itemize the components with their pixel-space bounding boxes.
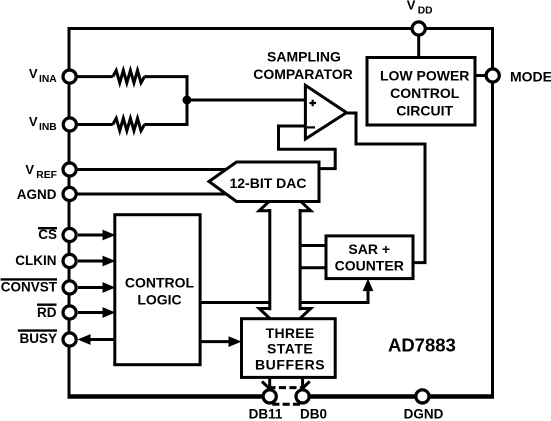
svg-text:AGND: AGND — [17, 187, 57, 202]
overline CS — [38, 227, 57, 229]
bus arrowhead top right barb — [299, 201, 311, 211]
white gap in bottom border between DB pins — [271, 392, 302, 401]
arrowhead BUSY (points left) — [78, 334, 91, 345]
svg-text:SAR +: SAR + — [348, 241, 390, 257]
svg-text:SAMPLING: SAMPLING — [267, 49, 341, 65]
arrowhead CLKIN — [103, 256, 116, 267]
pin CONVST — [63, 281, 76, 294]
lead buffers to DB11 pin — [268, 377, 271, 390]
wire bus to SAR stub 1 — [300, 244, 327, 247]
comparator U5 triangle — [305, 85, 346, 139]
svg-text:BUSY: BUSY — [19, 331, 57, 346]
wire VINB to resistor — [77, 123, 113, 126]
svg-text:RD: RD — [37, 305, 57, 320]
wire VDD pin to low power box — [417, 36, 420, 58]
arrowhead CS — [103, 230, 116, 241]
svg-text:CONTROL: CONTROL — [125, 274, 195, 290]
wire CS arrow line — [78, 234, 105, 237]
svg-text:CONVST: CONVST — [1, 279, 58, 294]
pin MODE — [486, 69, 499, 82]
svg-text:DB11: DB11 — [249, 407, 283, 421]
arrowhead CONVST — [103, 282, 116, 293]
svg-text:COUNTER: COUNTER — [335, 258, 404, 274]
dashed bus bottom between DB11 and DB0 — [272, 403, 302, 406]
chip outline border — [69, 29, 493, 397]
wire CONVST arrow line — [78, 286, 105, 289]
block low power control circuit U1 — [367, 58, 475, 126]
wire resistor R2 to node A — [144, 100, 187, 125]
barb on DB0 lead — [303, 381, 310, 388]
overline CONVST — [1, 278, 57, 280]
overline BUSY — [18, 329, 57, 331]
resistor R1 — [113, 70, 145, 82]
pin VINA — [63, 70, 76, 83]
pin CS — [63, 228, 76, 241]
svg-text:CLKIN: CLKIN — [15, 253, 56, 268]
lead buffers to DB0 pin — [301, 377, 304, 390]
svg-text:THREE: THREE — [266, 325, 315, 341]
wire low power box to MODE pin — [475, 74, 485, 77]
wire bus right to SAR bottom arrow — [300, 289, 368, 303]
pin VDD — [412, 22, 425, 35]
svg-text:LOW POWER: LOW POWER — [380, 68, 469, 84]
pin CLKIN — [63, 254, 76, 267]
wire VINA to resistor and down to node — [77, 75, 113, 78]
block SAR + counter U3 — [326, 236, 413, 279]
svg-text:DGND: DGND — [404, 407, 444, 421]
pin RD — [63, 306, 76, 319]
wire RD arrow line — [78, 311, 105, 314]
bus arrowhead bottom left barb — [259, 309, 271, 319]
wire resistor R1 to node A — [144, 77, 187, 100]
wire node A to comparator + input — [187, 99, 305, 102]
wire control logic to bus left — [200, 301, 270, 304]
pin DB11 — [263, 390, 276, 403]
wire comparator output to SAR right side — [347, 113, 426, 263]
overline RD — [37, 304, 57, 306]
wire comparator - input feedback from DAC — [279, 126, 336, 169]
block control logic U2 — [115, 215, 200, 365]
wire VREF to DAC — [77, 168, 226, 171]
wire AGND to DAC — [77, 193, 228, 196]
arrowhead RD — [103, 307, 116, 318]
barb on DB11 lead — [262, 381, 269, 388]
wire bus to SAR stub 2 — [300, 266, 327, 269]
wire BUSY arrow line — [89, 338, 115, 341]
bus right line — [299, 209, 302, 310]
bus arrowhead top left barb — [259, 201, 271, 211]
comparator minus sign — [307, 126, 315, 128]
pin DB0 — [296, 390, 309, 403]
svg-text:COMPARATOR: COMPARATOR — [253, 66, 353, 82]
svg-text:LOGIC: LOGIC — [137, 292, 181, 308]
node A junction dot — [183, 96, 192, 105]
comparator plus sign — [309, 100, 316, 107]
pin VINB — [63, 118, 76, 131]
svg-text:AD7883: AD7883 — [388, 335, 456, 356]
wire control logic to buffers — [200, 340, 231, 343]
pin DGND — [416, 390, 429, 403]
svg-text:DB0: DB0 — [300, 407, 327, 421]
block three state buffers U4 — [242, 319, 336, 378]
svg-text:MODE: MODE — [510, 68, 551, 84]
svg-text:STATE: STATE — [267, 341, 313, 357]
pin AGND — [63, 187, 76, 200]
svg-text:CIRCUIT: CIRCUIT — [396, 103, 453, 119]
svg-text:CONTROL: CONTROL — [390, 85, 460, 101]
arrowhead into SAR bottom (points up) — [363, 279, 374, 292]
resistor R2 — [113, 118, 145, 130]
pin BUSY — [63, 333, 76, 346]
arrowhead into buffers — [229, 336, 242, 347]
bus left line — [268, 209, 271, 310]
bottom border thicker — [68, 394, 495, 398]
wire CLKIN arrow line — [78, 260, 105, 263]
pin VREF — [63, 163, 76, 176]
DAC block (arrow pentagon) — [209, 162, 319, 202]
bus arrowhead bottom right barb — [299, 309, 311, 319]
svg-text:BUFFERS: BUFFERS — [255, 357, 325, 373]
svg-text:12-BIT DAC: 12-BIT DAC — [229, 175, 306, 191]
dashed bus top between DB11 and DB0 — [268, 386, 302, 389]
